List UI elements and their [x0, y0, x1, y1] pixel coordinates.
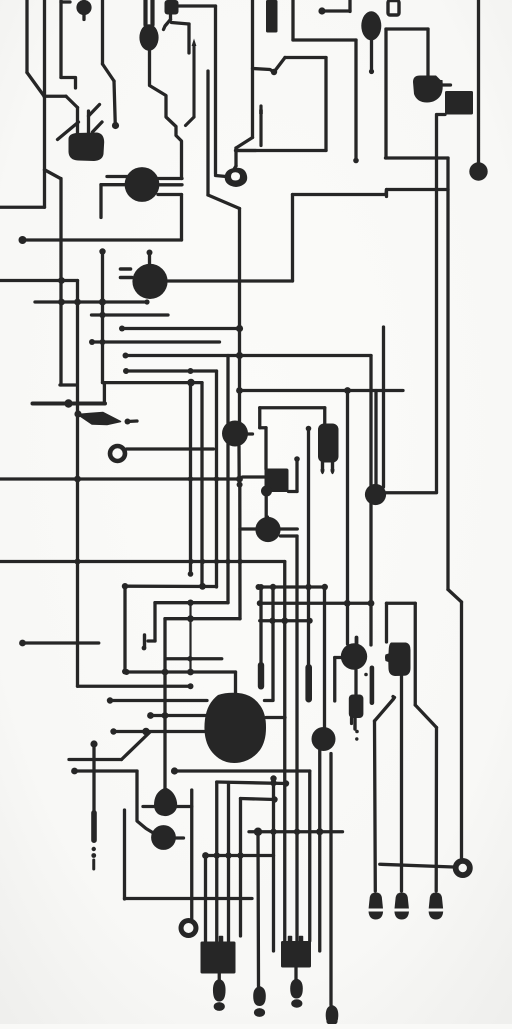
- wire: [333, 658, 336, 702]
- pad: [364, 673, 368, 677]
- wire: [214, 6, 217, 174]
- plug tip: [291, 999, 302, 1007]
- wire: [236, 149, 257, 152]
- wire: [260, 426, 266, 429]
- wire: [125, 585, 217, 589]
- wire: [323, 408, 326, 425]
- wire: [87, 111, 90, 134]
- wire: [165, 617, 240, 620]
- wire: [151, 714, 209, 717]
- pad: [187, 669, 194, 676]
- wire: [448, 590, 462, 603]
- wire: [283, 562, 286, 942]
- wire: [78, 685, 191, 688]
- wire: [101, 0, 104, 64]
- wire: [354, 40, 357, 158]
- pad: [119, 326, 125, 332]
- pad: [355, 730, 359, 734]
- pad C8: [154, 788, 177, 817]
- wire: [76, 108, 79, 137]
- wire: [190, 790, 193, 919]
- wire: [259, 106, 262, 146]
- wire: [386, 156, 449, 159]
- pad: [202, 852, 209, 859]
- wire: [45, 170, 61, 179]
- pad: [236, 352, 243, 359]
- component R1: [349, 695, 364, 719]
- pad: [271, 69, 277, 75]
- ring pad: [225, 168, 247, 187]
- wire: [0, 477, 240, 480]
- wire: [0, 279, 78, 282]
- pin tip: [192, 39, 197, 47]
- pin foot: [429, 893, 443, 909]
- pad: [270, 829, 276, 835]
- wire: [354, 670, 357, 696]
- wire: [259, 587, 262, 664]
- pad: [305, 584, 311, 590]
- wire: [200, 383, 203, 587]
- wire: [153, 603, 156, 641]
- wire: [271, 587, 274, 700]
- pad: [281, 617, 288, 624]
- pad C9: [151, 825, 176, 850]
- pad C1: [132, 264, 167, 299]
- wire: [281, 527, 298, 530]
- blob pad B3: [365, 484, 386, 505]
- wire: [125, 897, 253, 900]
- wire: [260, 406, 325, 409]
- wire: [172, 23, 190, 25]
- wire: [114, 81, 115, 122]
- wire: [43, 170, 46, 208]
- pad: [187, 379, 195, 387]
- wire: [92, 744, 95, 812]
- diode: [78, 413, 121, 425]
- pad: [71, 768, 78, 775]
- component T1: [318, 424, 339, 463]
- pad: [355, 737, 358, 740]
- pin foot: [369, 893, 383, 909]
- fuse: [388, 1, 399, 16]
- wire: [93, 122, 103, 132]
- wire: [217, 782, 286, 784]
- pad: [188, 368, 194, 374]
- plug bulb: [213, 979, 226, 1002]
- wire: [60, 383, 76, 386]
- wire: [0, 206, 45, 209]
- wire: [186, 117, 195, 126]
- wire: [249, 830, 343, 833]
- wire: [44, 95, 66, 98]
- blob pad B4: [413, 76, 443, 103]
- pad: [147, 250, 153, 256]
- pad: [187, 615, 194, 622]
- wire: [121, 267, 131, 271]
- blob big: [204, 693, 266, 763]
- wire: [446, 158, 449, 590]
- pad: [122, 583, 128, 589]
- wire: [265, 699, 274, 702]
- wire: [415, 705, 436, 728]
- wire: [323, 587, 326, 728]
- pad: [322, 584, 328, 590]
- pad: [214, 559, 219, 564]
- wire: [126, 369, 217, 372]
- component SQ1: [201, 942, 236, 974]
- pad: [214, 852, 220, 858]
- wire: [158, 183, 182, 186]
- pad: [112, 122, 119, 129]
- wire: [386, 27, 428, 30]
- wire: [234, 672, 237, 694]
- wire: [89, 105, 100, 117]
- wire: [101, 183, 126, 186]
- wire: [285, 56, 326, 59]
- wire: [227, 783, 230, 942]
- pad: [294, 829, 300, 835]
- wire: [150, 50, 182, 179]
- pad: [316, 828, 323, 835]
- wire: [380, 864, 454, 867]
- wire: [318, 750, 321, 951]
- pad: [188, 559, 193, 564]
- wire: [187, 24, 190, 53]
- wire: [384, 29, 387, 158]
- wire: [101, 252, 104, 383]
- pad: [257, 600, 263, 606]
- pin tab: [289, 937, 292, 942]
- wire: [265, 492, 268, 518]
- wire: [426, 29, 429, 76]
- wire: [189, 383, 192, 574]
- pad: [142, 728, 150, 736]
- wire: [289, 490, 298, 493]
- wire: [61, 78, 76, 89]
- wire: [373, 721, 377, 891]
- pad: [306, 426, 312, 432]
- ring pad RG3: [453, 858, 473, 878]
- wire: [175, 769, 310, 772]
- wire: [148, 253, 151, 267]
- wire: [234, 166, 237, 170]
- pad: [225, 852, 231, 858]
- wire: [385, 190, 388, 197]
- pad: [100, 339, 106, 345]
- wire: [348, 0, 351, 12]
- wire: [322, 9, 350, 12]
- component R2: [385, 643, 411, 677]
- pad: [74, 410, 81, 417]
- blob pad: [68, 133, 104, 162]
- pad: [294, 456, 300, 462]
- wire: [374, 391, 377, 487]
- plug tip: [214, 1002, 225, 1011]
- wire: [166, 657, 222, 660]
- pad: [142, 646, 147, 651]
- wire: [23, 641, 99, 644]
- component S2: [445, 91, 473, 115]
- wire: [375, 700, 394, 722]
- pad: [353, 158, 359, 164]
- pad: [283, 780, 289, 786]
- wire: [155, 601, 228, 604]
- wire: [346, 391, 349, 645]
- wire: [266, 716, 285, 719]
- wire: [150, 0, 154, 25]
- pad: [188, 476, 193, 481]
- wire: [61, 0, 70, 3]
- pad: [99, 248, 105, 254]
- wire: [163, 619, 166, 789]
- pad E2: [361, 11, 381, 40]
- resistor pill: [91, 810, 97, 843]
- pad: [237, 559, 242, 564]
- wire: [92, 313, 169, 316]
- pad: [99, 298, 106, 305]
- wire: [33, 402, 106, 406]
- wire: [158, 193, 182, 196]
- pin foot: [395, 893, 409, 909]
- pad: [99, 312, 105, 318]
- ring pad RG2: [108, 444, 128, 464]
- pad: [110, 728, 116, 734]
- pin tip: [259, 107, 263, 114]
- pad: [307, 618, 313, 624]
- pin tab: [220, 937, 223, 942]
- wire: [238, 209, 241, 424]
- pin foot: [321, 469, 325, 474]
- pad: [162, 712, 169, 719]
- wire: [123, 586, 126, 670]
- wire: [335, 656, 341, 659]
- wire: [386, 491, 437, 494]
- wire: [180, 195, 183, 241]
- pad: [19, 236, 27, 244]
- pad: [171, 767, 178, 774]
- pad: [368, 600, 375, 607]
- wire: [178, 4, 216, 7]
- wire: [35, 300, 147, 303]
- pad: [58, 277, 65, 284]
- wire: [331, 462, 334, 471]
- wire: [107, 175, 127, 178]
- pin foot: [394, 912, 409, 920]
- wire: [121, 276, 133, 280]
- pad: [147, 712, 154, 719]
- wire: [259, 585, 325, 588]
- pad: [271, 796, 277, 802]
- wire: [243, 475, 265, 478]
- wire: [253, 69, 275, 73]
- plug bulb: [326, 1005, 339, 1025]
- wire: [477, 0, 480, 163]
- wire: [122, 327, 240, 330]
- wire: [215, 371, 218, 587]
- wire: [236, 138, 253, 149]
- pad: [58, 299, 65, 306]
- wire: [218, 974, 221, 981]
- pad: [90, 740, 97, 747]
- wire: [251, 0, 254, 138]
- wire: [127, 447, 214, 450]
- wire: [206, 854, 274, 857]
- wire: [27, 73, 44, 97]
- pad C3: [222, 421, 248, 447]
- wire: [437, 113, 445, 116]
- wire: [192, 44, 195, 117]
- wire: [256, 832, 260, 986]
- wire: [239, 799, 242, 937]
- wire: [238, 485, 241, 619]
- pad: [236, 476, 243, 483]
- wire: [143, 0, 147, 25]
- wire: [460, 602, 463, 858]
- pad: [91, 853, 96, 858]
- pad: [123, 353, 129, 359]
- wire: [435, 728, 439, 892]
- wire: [76, 281, 79, 687]
- pad: [237, 852, 243, 858]
- pad: [254, 828, 262, 836]
- plug tip: [254, 1008, 265, 1017]
- pad: [236, 325, 243, 332]
- wire: [385, 603, 388, 642]
- pad: [188, 683, 194, 689]
- wire: [215, 782, 218, 942]
- wire: [25, 0, 28, 73]
- pin foot: [429, 912, 444, 920]
- pad: [236, 387, 243, 394]
- pad: [270, 780, 276, 786]
- wire: [350, 718, 353, 724]
- pad: [199, 583, 206, 590]
- pad: [344, 600, 351, 607]
- wire: [260, 602, 371, 605]
- pad C2: [125, 167, 160, 202]
- pad C5: [312, 727, 336, 751]
- wire: [92, 860, 95, 869]
- wire: [128, 419, 138, 423]
- pad C7: [469, 162, 487, 180]
- wire: [355, 638, 359, 647]
- wire: [442, 83, 451, 86]
- pad: [124, 669, 130, 675]
- wire: [291, 195, 294, 282]
- wire: [414, 603, 417, 705]
- wire: [234, 148, 237, 166]
- wire: [110, 699, 207, 702]
- pad: [270, 584, 276, 590]
- ring pad RG4: [179, 918, 199, 938]
- pad: [74, 299, 81, 306]
- wire: [281, 534, 298, 537]
- wire: [122, 732, 151, 760]
- wire: [400, 676, 403, 891]
- wire: [226, 356, 229, 603]
- wire: [266, 517, 269, 518]
- wire: [241, 799, 275, 800]
- resistor pill: [258, 662, 264, 690]
- pad: [19, 640, 26, 647]
- pad C4: [255, 517, 280, 542]
- wire: [295, 459, 298, 492]
- pin foot: [369, 912, 384, 920]
- wire: [176, 836, 184, 839]
- wire: [123, 810, 126, 899]
- pad: [92, 847, 96, 851]
- wire: [103, 381, 203, 384]
- pad: [369, 69, 374, 74]
- wire: [329, 754, 332, 1006]
- plug bulb: [253, 986, 266, 1006]
- pad: [139, 24, 158, 50]
- wire: [126, 354, 372, 357]
- wire: [240, 527, 256, 530]
- wire: [308, 771, 311, 941]
- pin foot: [331, 469, 335, 474]
- wire: [137, 771, 155, 834]
- pad: [258, 584, 264, 590]
- resistor pill: [370, 666, 375, 706]
- wire: [75, 769, 138, 772]
- plug bulb: [290, 979, 303, 999]
- pad: [64, 399, 72, 407]
- pad: [89, 339, 95, 345]
- pad: [256, 584, 262, 590]
- wire: [274, 58, 285, 73]
- wire: [324, 58, 327, 151]
- plug tip: [326, 1018, 337, 1025]
- resistor pill: [305, 664, 312, 703]
- wire: [353, 718, 356, 729]
- wire: [216, 176, 227, 177]
- component bar: [266, 0, 278, 33]
- wire: [92, 340, 220, 343]
- pad: [123, 368, 129, 374]
- wire: [293, 190, 449, 195]
- pad: [318, 7, 325, 14]
- wire: [264, 428, 267, 469]
- component S1: [165, 0, 179, 15]
- wire: [370, 39, 373, 70]
- wire: [293, 38, 356, 41]
- wire: [148, 639, 155, 642]
- wire: [206, 71, 209, 195]
- wire: [59, 179, 62, 386]
- wire: [258, 408, 261, 428]
- wire: [295, 536, 298, 941]
- wire: [103, 383, 106, 404]
- wire: [82, 14, 85, 20]
- wire: [189, 603, 191, 672]
- wire: [239, 389, 403, 392]
- wire: [59, 0, 62, 78]
- wire: [382, 327, 385, 487]
- pad: [75, 559, 81, 565]
- wire: [164, 20, 171, 30]
- wire: [143, 635, 146, 647]
- component S3: [265, 469, 289, 493]
- wire: [307, 429, 310, 667]
- wire: [143, 805, 155, 808]
- wire: [103, 64, 115, 81]
- pad: [225, 559, 230, 564]
- wire: [23, 238, 182, 241]
- pad: [214, 476, 219, 481]
- wire: [177, 805, 192, 808]
- pad: [107, 697, 113, 703]
